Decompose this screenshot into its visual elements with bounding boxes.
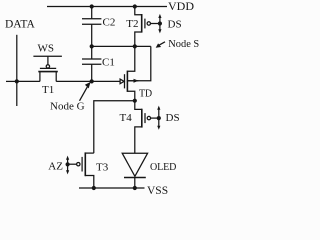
node junction TD source / T4 / T3 row xyxy=(133,99,137,103)
node S junction at TD/T2 branch xyxy=(133,44,137,48)
annotation arrow to node S xyxy=(156,42,165,48)
wire middle row to T3 xyxy=(94,101,135,153)
diode OLED xyxy=(122,153,147,188)
wire C2 bottom to node S line xyxy=(91,24,93,46)
svg-text:T2: T2 xyxy=(126,18,138,30)
node junction DATA/T1 xyxy=(15,79,19,83)
node junction OLED/VSS xyxy=(133,186,137,190)
svg-text:WS: WS xyxy=(38,43,55,55)
svg-text:OLED: OLED xyxy=(150,162,176,173)
wire node G to TD gate xyxy=(92,80,120,82)
svg-text:D: D xyxy=(145,88,152,99)
wire VDD rail xyxy=(47,6,167,8)
node S junction at capacitor branch xyxy=(90,44,94,48)
transistor TD xyxy=(120,46,139,100)
transistor T1 xyxy=(33,56,62,81)
node junction T3/VSS xyxy=(92,186,96,190)
wire DATA dot to T1 source xyxy=(17,80,40,82)
svg-text:VDD: VDD xyxy=(168,0,194,13)
svg-text:Node G: Node G xyxy=(50,101,85,113)
capacitor C2 xyxy=(82,19,101,24)
svg-text:Node S: Node S xyxy=(168,39,199,50)
transistor T3 xyxy=(68,152,94,188)
wire VDD to C2 top plate xyxy=(91,7,93,19)
node G junction xyxy=(90,79,94,83)
transistor T4 xyxy=(135,101,159,154)
wire C1 bottom to node G xyxy=(91,64,93,81)
node junction on VDD rail (T2 branch) xyxy=(133,4,137,8)
capacitor C1 xyxy=(82,59,101,64)
wire T1 drain to node G xyxy=(56,80,91,82)
signal AZ arrow for T3 xyxy=(66,156,70,175)
wire node S right drop to TD source lead xyxy=(127,46,150,80)
wire node S to C1 top plate xyxy=(91,46,93,59)
svg-text:T4: T4 xyxy=(120,112,133,124)
svg-text:VSS: VSS xyxy=(147,185,168,197)
annotation arrow to node G xyxy=(80,82,91,101)
svg-text:C2: C2 xyxy=(103,16,116,28)
transistor T2 xyxy=(135,7,160,47)
wire left stub at node G row xyxy=(6,80,17,82)
wire node S horizontal line xyxy=(92,45,151,47)
signal DS arrow for T2 xyxy=(158,14,162,34)
wire DATA vertical line xyxy=(16,35,18,106)
signal DS arrow for T4 xyxy=(157,106,161,130)
svg-text:AZ: AZ xyxy=(48,160,63,172)
wire VSS rail xyxy=(79,187,145,189)
svg-text:C1: C1 xyxy=(102,56,115,68)
svg-text:DATA: DATA xyxy=(5,18,35,30)
svg-text:T1: T1 xyxy=(42,84,54,96)
svg-text:DS: DS xyxy=(166,112,180,124)
svg-text:DS: DS xyxy=(168,18,182,30)
svg-text:T3: T3 xyxy=(96,161,109,173)
node junction on VDD rail (C2 branch) xyxy=(90,4,94,8)
